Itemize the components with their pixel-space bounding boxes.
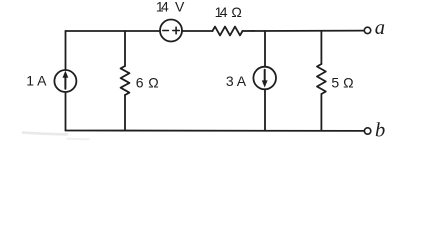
wire top-left horizontal (node from left branch to voltage source)	[66, 30, 161, 32]
wire 5-ohm branch lower vertical	[320, 94, 322, 131]
smudge artifact lower-left	[23, 133, 67, 135]
wire top between voltage source and 14-ohm resistor	[182, 30, 213, 32]
wire 6-ohm branch lower vertical	[124, 95, 126, 131]
smudge artifact lower-middle	[67, 138, 89, 140]
svg-text:6Ω: 6Ω	[136, 74, 159, 90]
svg-text:5Ω: 5Ω	[331, 75, 353, 91]
current source 3 A (circle with down arrow)	[253, 67, 276, 90]
svg-text:3 A: 3 A	[226, 73, 247, 89]
svg-text:14V: 14V	[156, 0, 185, 15]
node b terminal circle	[364, 128, 370, 134]
wire 5-ohm branch upper vertical	[320, 31, 322, 64]
current source 1 A (circle with up arrow)	[54, 70, 76, 92]
svg-text:14Ω: 14Ω	[215, 4, 242, 20]
wire left vertical lower (from 1A source)	[65, 92, 67, 131]
svg-text:1 A: 1 A	[26, 73, 47, 89]
node a terminal circle	[364, 27, 370, 33]
wire 6-ohm branch upper vertical	[124, 31, 126, 66]
resistor 6 ohm (vertical zigzag)	[121, 66, 130, 95]
svg-text:a: a	[375, 17, 385, 39]
wire top-right to terminal a	[243, 30, 365, 32]
voltage source 14 V (circle with - +)	[160, 20, 182, 42]
resistor 5 ohm (vertical zigzag)	[317, 64, 326, 94]
wire 3A branch upper vertical	[264, 31, 266, 67]
wire 3A branch lower vertical	[264, 89, 266, 130]
wire left vertical upper (into 1A source)	[65, 31, 67, 70]
resistor 14 ohm (horizontal zigzag)	[213, 27, 243, 36]
svg-text:b: b	[375, 119, 385, 141]
wire bottom horizontal (node b rail)	[66, 130, 365, 132]
